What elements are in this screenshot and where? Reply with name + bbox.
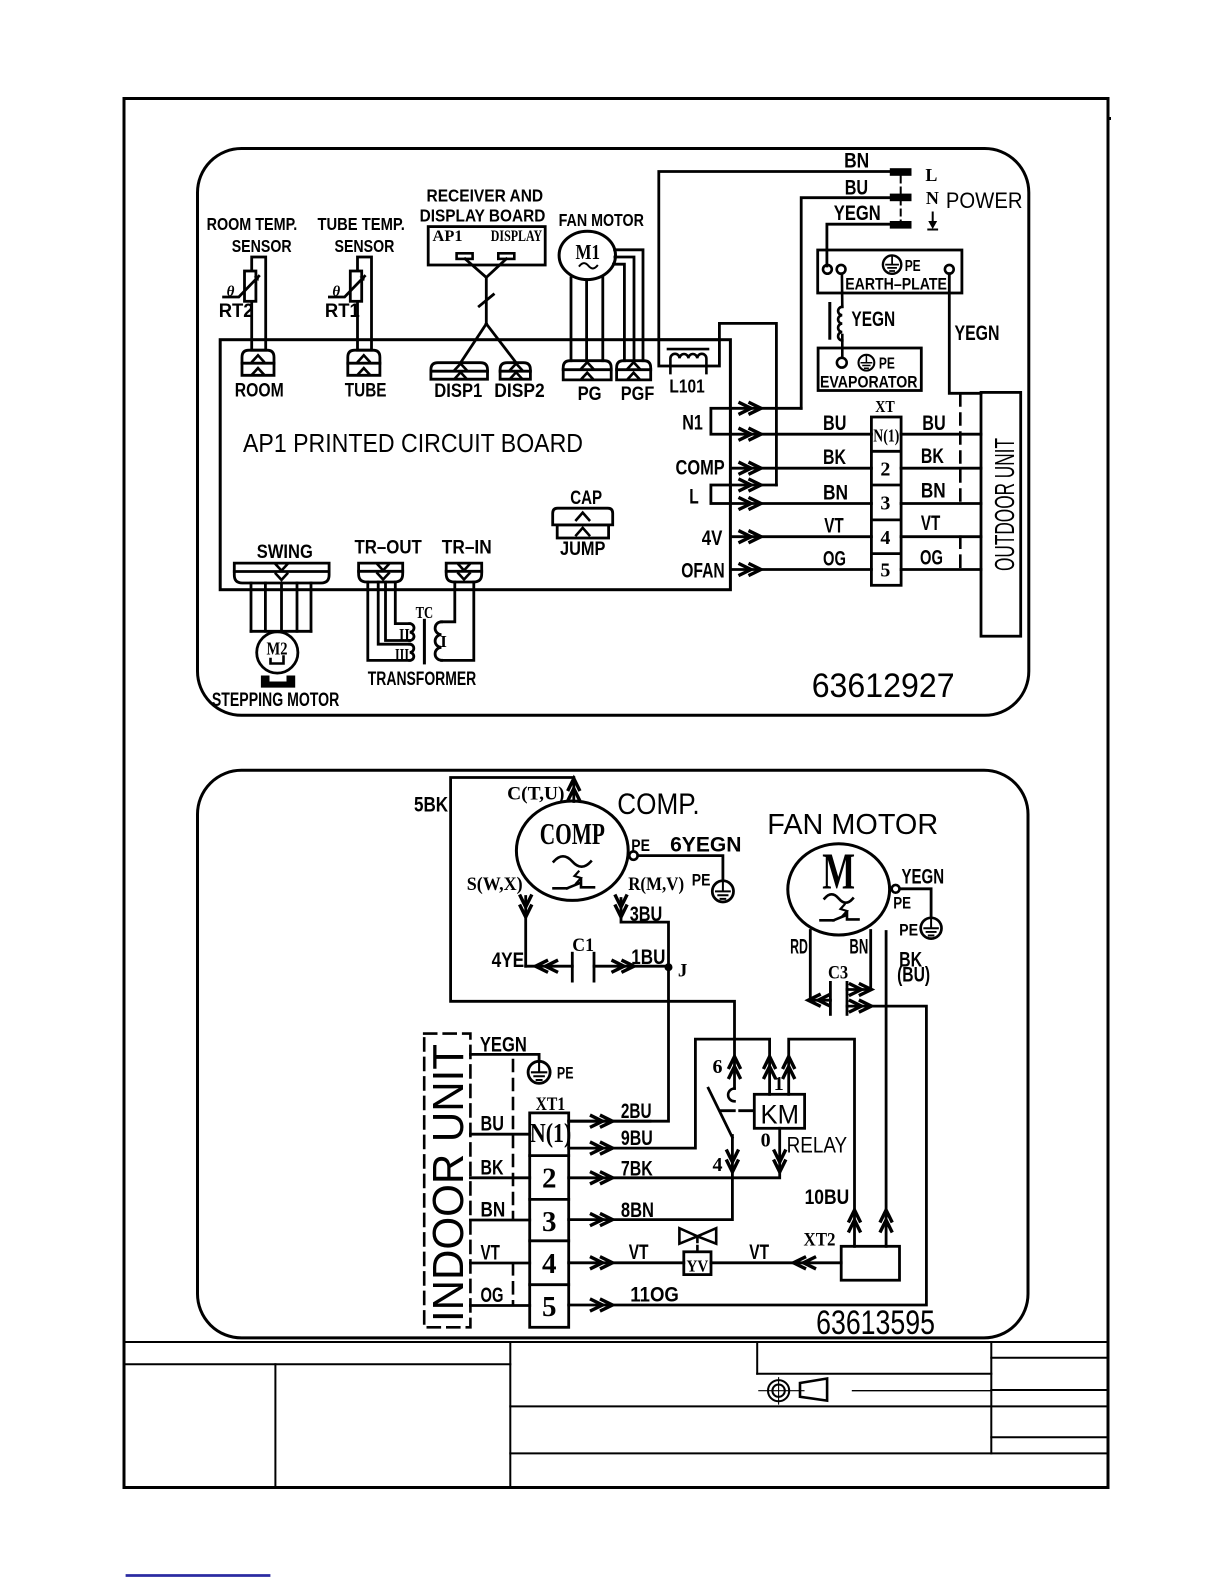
svg-text:C(T,U): C(T,U): [507, 784, 564, 805]
svg-text:STEPPING MOTOR: STEPPING MOTOR: [212, 690, 340, 711]
svg-text:I: I: [440, 632, 447, 651]
svg-text:TUBE TEMP.: TUBE TEMP.: [318, 214, 405, 234]
wire XT3-out BN: [901, 502, 981, 505]
wire J to 2BU row: [569, 967, 669, 1121]
svg-text:4: 4: [542, 1248, 557, 1280]
svg-text:3: 3: [880, 493, 890, 515]
svg-text:5: 5: [542, 1291, 557, 1323]
thermistor RT2 probe: [252, 257, 266, 350]
svg-text:PE: PE: [692, 871, 711, 890]
svg-text:8BN: 8BN: [621, 1199, 654, 1222]
svg-text:DISP1: DISP1: [434, 381, 482, 402]
wire earth plate to choke: [841, 274, 844, 307]
svg-text:YEGN: YEGN: [834, 202, 881, 225]
svg-text:N(1): N(1): [530, 1118, 571, 1148]
wire OFAN row to XT 5: [730, 568, 871, 571]
svg-text:POWER: POWER: [946, 188, 1023, 213]
transformer winding III: [410, 644, 414, 660]
wire BU power feed: [801, 198, 890, 409]
indoor unit dashed box: [424, 1034, 470, 1328]
svg-text:L: L: [689, 486, 699, 509]
svg-text:6: 6: [713, 1056, 723, 1078]
svg-text:63612927: 63612927: [812, 667, 955, 705]
svg-text:II: II: [399, 625, 410, 644]
power terminal PE: [890, 221, 912, 229]
svg-text:4: 4: [713, 1154, 723, 1176]
svg-text:BN: BN: [823, 482, 848, 505]
connector DISP1: [431, 363, 488, 380]
power earth symbol: [928, 213, 937, 230]
evaporator PE symbol: [859, 355, 875, 371]
M start glyph: [821, 905, 859, 921]
svg-text:R(M,V): R(M,V): [628, 874, 684, 895]
svg-text:PGF: PGF: [621, 384, 655, 405]
svg-text:VT: VT: [481, 1242, 501, 1265]
svg-text:VT: VT: [629, 1241, 649, 1264]
svg-text:N(1): N(1): [873, 426, 899, 446]
svg-text:C3: C3: [828, 962, 848, 983]
rounded enclosure box 2 (outdoor wiring diagram): [198, 770, 1029, 1338]
svg-text:CAP: CAP: [570, 488, 602, 509]
evaporator box: [818, 348, 921, 391]
svg-text:S(W,X): S(W,X): [467, 874, 523, 895]
page outer border: [124, 99, 1108, 1488]
transformer core: [423, 620, 426, 663]
connector PGF: [617, 361, 651, 380]
svg-text:YV: YV: [687, 1256, 709, 1275]
svg-text:BN: BN: [849, 936, 868, 959]
first-angle projection symbol: [759, 1378, 992, 1404]
wire KM pin1 to XT2 (10BU): [789, 1039, 855, 1246]
connector DISP2: [500, 363, 530, 380]
svg-text:4YE: 4YE: [492, 949, 525, 972]
wire BK indoor: [470, 1176, 529, 1179]
svg-text:YEGN: YEGN: [902, 866, 945, 889]
svg-text:0: 0: [761, 1130, 771, 1152]
svg-text:N: N: [926, 188, 939, 208]
earth plate pin 1: [823, 265, 832, 274]
wire BK(BU) fan to XT2: [885, 932, 888, 1247]
svg-text:BK: BK: [481, 1156, 504, 1179]
outdoor cable dashed boundary: [959, 395, 962, 570]
svg-text:4V: 4V: [702, 527, 723, 550]
wire C(T,U) with up arrow: [572, 779, 575, 802]
transformer TC secondary wires: [368, 582, 410, 660]
transformer winding II: [410, 624, 414, 641]
connector PG: [563, 361, 611, 380]
svg-text:YEGN: YEGN: [955, 322, 1000, 345]
svg-text:9BU: 9BU: [621, 1127, 653, 1150]
earth plate PE symbol: [883, 255, 901, 273]
rounded enclosure box 1 (indoor PCB diagram): [198, 149, 1029, 716]
M sine: [825, 894, 853, 902]
indoor cable dashed boundary: [512, 1060, 515, 1305]
wire R to J: [621, 899, 669, 968]
svg-text:AP1: AP1: [433, 228, 463, 245]
thermistor RT1 element: [329, 271, 364, 301]
wire COMP row to XT 2: [730, 467, 871, 470]
svg-text:BU: BU: [823, 412, 846, 435]
svg-text:N1: N1: [682, 411, 703, 434]
svg-text:TRANSFORMER: TRANSFORMER: [368, 669, 477, 690]
evaporator pin: [837, 358, 847, 368]
svg-text:PE: PE: [905, 258, 921, 275]
comp PE pin: [629, 851, 637, 859]
solenoid valve YV bowtie: [679, 1228, 716, 1250]
svg-text:7BK: 7BK: [621, 1158, 653, 1181]
capacitor C1: [572, 953, 594, 981]
earth plate box: [818, 250, 962, 293]
svg-text:RELAY: RELAY: [787, 1133, 848, 1158]
svg-text:63613595: 63613595: [816, 1304, 935, 1342]
svg-text:θ: θ: [227, 284, 235, 300]
wire 1BU: [594, 965, 669, 968]
earth plate pin 3: [945, 265, 954, 274]
svg-text:BN: BN: [481, 1199, 506, 1222]
wire 6YEGN: [638, 856, 723, 881]
svg-text:DISP2: DISP2: [494, 381, 544, 402]
svg-text:3BU: 3BU: [630, 903, 663, 926]
svg-text:RECEIVER AND: RECEIVER AND: [427, 186, 544, 206]
svg-text:OUTDOOR UNIT: OUTDOOR UNIT: [989, 438, 1020, 571]
switch blade: [708, 1088, 732, 1137]
svg-text:RD: RD: [790, 936, 808, 959]
outdoor unit box: [981, 392, 1021, 636]
power terminal N: [890, 194, 912, 202]
AP1 printed circuit board box: [220, 340, 730, 590]
wire BN indoor: [470, 1219, 529, 1222]
svg-text:BU: BU: [845, 177, 868, 200]
svg-text:C1: C1: [572, 935, 594, 956]
svg-text:TUBE: TUBE: [345, 380, 387, 401]
svg-text:KM: KM: [761, 1100, 800, 1130]
wire choke to evaporator: [841, 335, 844, 358]
thermistor RT2 element: [224, 271, 259, 301]
wire YEGN to outdoor unit: [949, 274, 981, 394]
stray dot top-right: [1108, 117, 1111, 120]
svg-text:COMP: COMP: [540, 816, 605, 851]
svg-text:YEGN: YEGN: [851, 308, 895, 331]
wire RD: [810, 931, 830, 1001]
svg-text:XT: XT: [875, 397, 895, 416]
capacitor C3: [830, 982, 847, 1014]
junction J: [665, 963, 673, 971]
svg-text:RT1: RT1: [325, 301, 360, 322]
svg-text:M1: M1: [576, 240, 601, 264]
wire BN fan: [847, 931, 871, 990]
svg-text:INDOOR UNIT: INDOOR UNIT: [424, 1044, 473, 1322]
svg-text:PG: PG: [578, 384, 602, 405]
svg-text:TR–IN: TR–IN: [442, 538, 492, 559]
svg-text:FAN MOTOR: FAN MOTOR: [559, 210, 645, 230]
wire XT2-out BK: [901, 467, 981, 470]
wire 5BK: [451, 778, 735, 1089]
svg-text:L101: L101: [669, 376, 704, 396]
wire 7BK row: [569, 1128, 780, 1178]
wire XT4-out VT: [901, 535, 981, 538]
svg-text:III: III: [395, 645, 409, 664]
svg-text:PE: PE: [893, 894, 911, 913]
svg-text:RT2: RT2: [219, 301, 254, 322]
svg-text:5BK: 5BK: [414, 794, 448, 817]
fan motor M: [788, 844, 890, 935]
svg-text:DISPLAY BOARD: DISPLAY BOARD: [420, 205, 546, 225]
PCB terminal stub L: [711, 485, 731, 504]
motor M1: [559, 231, 615, 279]
wire OG indoor: [470, 1304, 529, 1307]
YEGN choke coil: [830, 304, 843, 341]
svg-text:BN: BN: [921, 479, 946, 502]
svg-text:EVAPORATOR: EVAPORATOR: [820, 373, 917, 392]
svg-text:3: 3: [542, 1206, 557, 1238]
plug dashed link: [900, 177, 902, 222]
thermistor RT1 probe: [358, 257, 372, 350]
svg-text:ROOM: ROOM: [235, 380, 284, 401]
svg-text:COMP: COMP: [676, 456, 725, 479]
fan PE pin: [892, 885, 900, 893]
svg-text:XT2: XT2: [804, 1229, 836, 1250]
svg-text:2: 2: [880, 458, 890, 480]
blue underline bottom-left: [127, 1574, 269, 1577]
wire XT5-out OG: [901, 568, 981, 571]
svg-text:OG: OG: [481, 1284, 504, 1307]
svg-text:PE: PE: [899, 921, 918, 940]
svg-text:5: 5: [880, 560, 890, 582]
svg-text:L: L: [925, 165, 937, 185]
stepping motor mount: [261, 676, 295, 688]
solenoid valve YV box: [684, 1252, 711, 1275]
COMP start glyph: [554, 872, 595, 889]
connector TUBE: [348, 350, 380, 375]
svg-text:TR–OUT: TR–OUT: [355, 538, 423, 559]
svg-text:DISPLAY: DISPLAY: [491, 228, 543, 245]
earth plate pin 2: [837, 265, 846, 274]
wire fan PE: [900, 889, 931, 918]
wire BU row to XT 1: [730, 433, 871, 436]
wire 8BN row: [569, 1136, 733, 1220]
wire 4YE: [526, 965, 573, 968]
svg-text:M: M: [822, 844, 855, 901]
display cable wires: [461, 259, 516, 363]
COMP sine: [554, 856, 591, 866]
11OG row arrow: [592, 1300, 613, 1311]
wire XT1-out BU: [901, 433, 981, 436]
M1 wires to PGF: [614, 250, 644, 361]
transformer TC primary wires: [442, 582, 474, 660]
inductor L101: [659, 340, 720, 373]
wire 4V row to XT 4: [730, 535, 871, 538]
svg-text:BK: BK: [823, 446, 846, 469]
display board pin tabs: [457, 253, 515, 259]
svg-text:4: 4: [880, 527, 890, 549]
svg-text:SENSOR: SENSOR: [335, 236, 395, 256]
wire YEGN power feed: [827, 224, 890, 266]
fan PE ground symbol: [921, 918, 942, 939]
svg-text:PE: PE: [557, 1064, 574, 1083]
PCB terminal stub N1: [711, 408, 731, 434]
svg-text:OFAN: OFAN: [681, 560, 725, 583]
svg-text:1BU: 1BU: [631, 946, 665, 969]
svg-text:10BU: 10BU: [805, 1186, 850, 1209]
svg-text:2BU: 2BU: [621, 1100, 652, 1123]
svg-text:θ: θ: [332, 284, 340, 300]
svg-text:FAN MOTOR: FAN MOTOR: [767, 809, 938, 841]
svg-text:BN: BN: [844, 149, 869, 172]
wire 9BU row: [569, 1039, 770, 1148]
wire N1 top row: [730, 407, 801, 410]
display board AP1 box: [428, 227, 545, 265]
wire BN row to XT 3: [730, 502, 871, 505]
relay coil KM: [754, 1094, 804, 1128]
svg-text:JUMP: JUMP: [560, 539, 606, 560]
wire 2BU row: [569, 1120, 650, 1123]
swing motor wires: [251, 583, 311, 631]
terminal XT2 box: [841, 1246, 899, 1280]
M2 step glyph: [271, 657, 284, 664]
svg-text:OG: OG: [920, 547, 943, 570]
switch contact 6: [728, 1089, 734, 1102]
svg-text:COMP.: COMP.: [617, 788, 699, 821]
svg-text:6YEGN: 6YEGN: [670, 834, 741, 857]
svg-text:BU: BU: [922, 412, 945, 435]
wire L101 to L net: [719, 323, 776, 485]
comp PE ground symbol: [712, 881, 733, 902]
indoor PE ground symbol: [528, 1061, 550, 1083]
svg-text:11OG: 11OG: [630, 1283, 679, 1306]
svg-text:PE: PE: [879, 355, 895, 372]
wire BN power feed: [659, 172, 890, 340]
M1 wires to PG: [571, 277, 603, 361]
svg-text:J: J: [678, 961, 688, 982]
power terminal L: [890, 168, 912, 176]
transformer winding I: [435, 622, 441, 661]
M1 sine: [580, 263, 598, 268]
svg-text:BK: BK: [921, 445, 944, 468]
svg-text:(BU): (BU): [897, 964, 930, 987]
svg-text:VT: VT: [921, 512, 941, 535]
wire VT left row: [569, 1261, 684, 1264]
wire VT indoor: [470, 1262, 529, 1265]
svg-text:BU: BU: [481, 1113, 504, 1136]
wire BU indoor: [470, 1133, 529, 1136]
wire S to C1: [524, 897, 527, 967]
svg-text:OG: OG: [823, 548, 846, 571]
relay link dashes: [720, 1109, 753, 1112]
svg-text:SENSOR: SENSOR: [232, 236, 292, 256]
wire C3 to 11OG: [569, 1006, 927, 1305]
svg-text:EARTH–PLATE: EARTH–PLATE: [845, 274, 947, 293]
stepping motor M2: [257, 632, 298, 673]
wire L top row: [730, 484, 776, 487]
svg-text:2: 2: [542, 1163, 557, 1195]
wire VT right row: [711, 1261, 841, 1264]
svg-text:VT: VT: [749, 1241, 769, 1264]
svg-text:VT: VT: [824, 515, 844, 538]
svg-text:AP1 PRINTED CIRCUIT BOARD: AP1 PRINTED CIRCUIT BOARD: [243, 428, 583, 458]
connector ROOM: [242, 350, 274, 375]
wire YEGN indoor PE: [470, 1054, 539, 1061]
compressor COMP: [516, 801, 628, 900]
svg-text:SWING: SWING: [257, 542, 313, 563]
svg-text:ROOM TEMP.: ROOM TEMP.: [207, 214, 298, 234]
